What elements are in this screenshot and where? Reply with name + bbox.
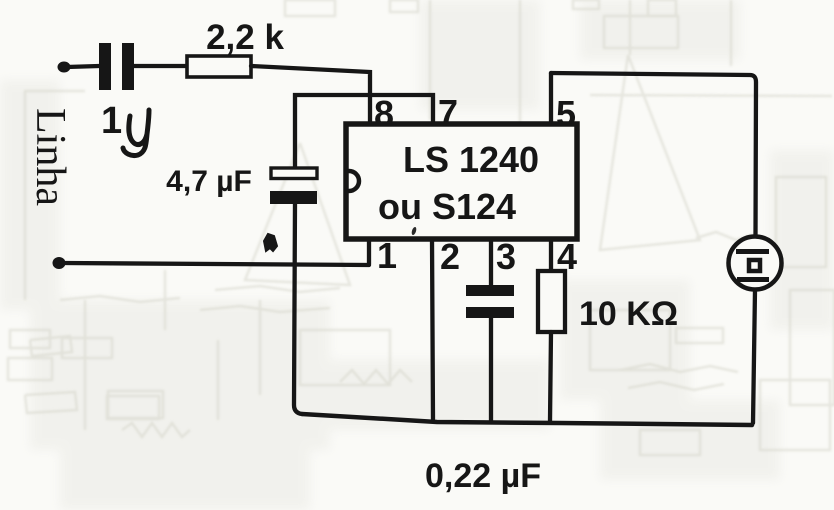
svg-text:4,7 µF: 4,7 µF [166, 165, 252, 198]
capacitor C3 0,22uF plates [466, 285, 514, 318]
asterisk mark [264, 234, 277, 251]
capacitor C1 1u plates [99, 43, 134, 90]
wire pin 7 to C2 top [295, 95, 433, 168]
svg-text:1: 1 [101, 100, 122, 142]
pin 4 stub [549, 239, 553, 271]
pin 2 lead [432, 239, 433, 420]
IC notch [349, 171, 359, 191]
svg-text:Linha: Linha [27, 108, 73, 206]
resistor R2 10K body [538, 271, 565, 332]
IC U1 body [346, 124, 577, 239]
terminal dot top (Linha +) [58, 62, 71, 73]
wire [134, 64, 186, 68]
svg-text:ou S124: ou S124 [378, 186, 516, 227]
svg-text:2: 2 [440, 236, 460, 277]
wire left line to pin 1 [64, 263, 369, 265]
svg-text:3: 3 [496, 236, 516, 277]
pin 1 stub [367, 239, 371, 264]
svg-text:0,22 µF: 0,22 µF [425, 457, 541, 495]
svg-text:10 KΩ: 10 KΩ [579, 295, 678, 333]
terminal dot bottom [53, 257, 66, 269]
wire top right to buzzer [551, 73, 756, 237]
wire [67, 66, 99, 67]
wire pin 5 up [549, 73, 553, 126]
resistor R1 2,2k body [187, 56, 251, 77]
buzzer bottom lead [753, 290, 755, 423]
pin 3 lead lower [489, 318, 493, 421]
buzzer BZ1 [729, 237, 782, 290]
wire C2 bottom lead down to bus [294, 202, 302, 414]
wire resistor to pin 8 [251, 66, 370, 126]
svg-text:1: 1 [377, 235, 397, 276]
bottom bus wire [302, 414, 752, 425]
pin 3 lead upper [489, 239, 493, 285]
svg-text:LS 1240: LS 1240 [403, 139, 539, 180]
capacitor C2 4,7uF plates [271, 168, 317, 179]
stray comma mark [411, 226, 417, 235]
svg-text:2,2 k: 2,2 k [206, 18, 284, 57]
resistor R2 lead [550, 332, 551, 421]
